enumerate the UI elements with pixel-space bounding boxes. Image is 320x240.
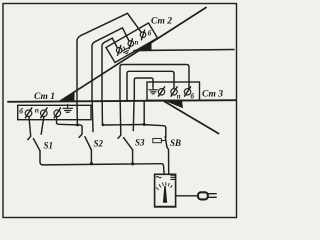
svg-text:S2: S2 — [94, 139, 104, 149]
jack g3 (St3 ground socket) — [158, 89, 164, 95]
svg-text:б: б — [191, 92, 195, 100]
wire: jack p1 stub down — [41, 117, 44, 134]
svg-text:п: п — [177, 92, 181, 100]
svg-text:п: п — [35, 106, 39, 115]
wire: St2 loop1 below bus — [76, 102, 78, 125]
jack p3 (St3 socket p) — [171, 89, 177, 95]
node: junction S3 bottom — [131, 162, 134, 165]
switch S2 — [85, 137, 92, 150]
svg-text:SB: SB — [170, 138, 181, 148]
wire: St3 bracket3 below bus (S3 stub) — [132, 102, 135, 131]
svg-text:S3: S3 — [135, 138, 145, 148]
box St3 (outlet box) — [147, 82, 200, 100]
svg-text:б: б — [148, 30, 152, 38]
wire: jack g1 down and right to S2 contact — [57, 117, 83, 137]
meter needle — [163, 186, 167, 203]
meter scale ticks — [156, 188, 158, 190]
wire: table-edge diagonal 2 — [165, 102, 219, 134]
wire: SB to power unit — [167, 147, 169, 174]
svg-text:п: п — [135, 39, 139, 47]
node: fill wedge at St2 edge junction — [139, 42, 152, 51]
switch S1 — [33, 139, 40, 151]
wire: St3 bracket 2 (middle, to jack p3) — [127, 71, 174, 101]
box St2 (tilted outlet box) — [106, 23, 158, 63]
svg-text:Ст 3: Ст 3 — [202, 89, 223, 99]
jack b3 (St3 socket b) — [184, 89, 190, 95]
power supply unit — [155, 174, 176, 207]
node: junction loop1 end — [76, 123, 79, 126]
jack g2 (St2 ground socket) — [116, 48, 122, 54]
plug — [198, 192, 208, 199]
wire: upper table-edge bus — [134, 50, 234, 51]
wire: St2 loop2 below bus (S2 stub) — [91, 102, 94, 132]
AC symbol — [156, 177, 161, 178]
node: fill wedge at St1 edge junction — [61, 92, 75, 102]
wire: St3 bracket1 below bus to S3 contact — [118, 102, 121, 139]
switch SB (push button) — [165, 136, 167, 147]
DC symbol lines — [171, 175, 175, 177]
wire: St3 bracket 3 (inner, to ground St3) — [134, 78, 153, 101]
ground symbol St1 — [67, 104, 69, 107]
wire: St2 loop 1 (outer, to jack b2) — [77, 13, 141, 101]
wire: St2 loop 3 (inner, to jack g2) — [102, 38, 117, 101]
jack p1 (St1 socket p) — [41, 110, 48, 117]
node: fill wedge at St3 edge junction — [164, 100, 184, 108]
box St1 (outlet box) — [18, 105, 91, 119]
wire: table-edge diagonal 1 — [61, 8, 207, 101]
node: junction S2 bottom — [90, 162, 93, 165]
jack b2 (St2 socket b) — [140, 32, 146, 38]
power unit output wire — [176, 195, 198, 197]
wire: bus drop to SB run — [143, 102, 145, 125]
switch S3 — [124, 138, 133, 150]
wire: bottom bus S1-S2-S3 to power unit — [43, 164, 164, 175]
wire: horizontal run to SB — [142, 125, 166, 138]
node: junction loop3 corner — [102, 123, 105, 126]
wire: jack b1 down to S1 contact — [28, 117, 31, 140]
svg-text:б: б — [19, 107, 23, 116]
jack p2 (St2 socket p) — [128, 41, 134, 47]
jack g1 (St1 ground socket) — [54, 110, 61, 117]
jack b1 (St1 socket b) — [25, 110, 32, 117]
wire: St3 bracket 1 (outer, to jack b3) — [120, 65, 189, 102]
wire: main table-edge bus (lower) — [8, 100, 236, 102]
border frame — [3, 4, 237, 218]
ground symbol St2 (tilted) — [120, 45, 131, 55]
wire: St2 loop3 below bus to horizontal run — [102, 102, 142, 126]
svg-text:Ст 2: Ст 2 — [151, 16, 172, 26]
svg-text:S1: S1 — [44, 141, 54, 151]
node: junction bus drop — [143, 123, 146, 126]
svg-text:Ст 1: Ст 1 — [34, 92, 55, 102]
ground symbol St3 — [152, 87, 154, 90]
wire: St2 loop 2 (middle, to jack p2) — [92, 28, 129, 102]
